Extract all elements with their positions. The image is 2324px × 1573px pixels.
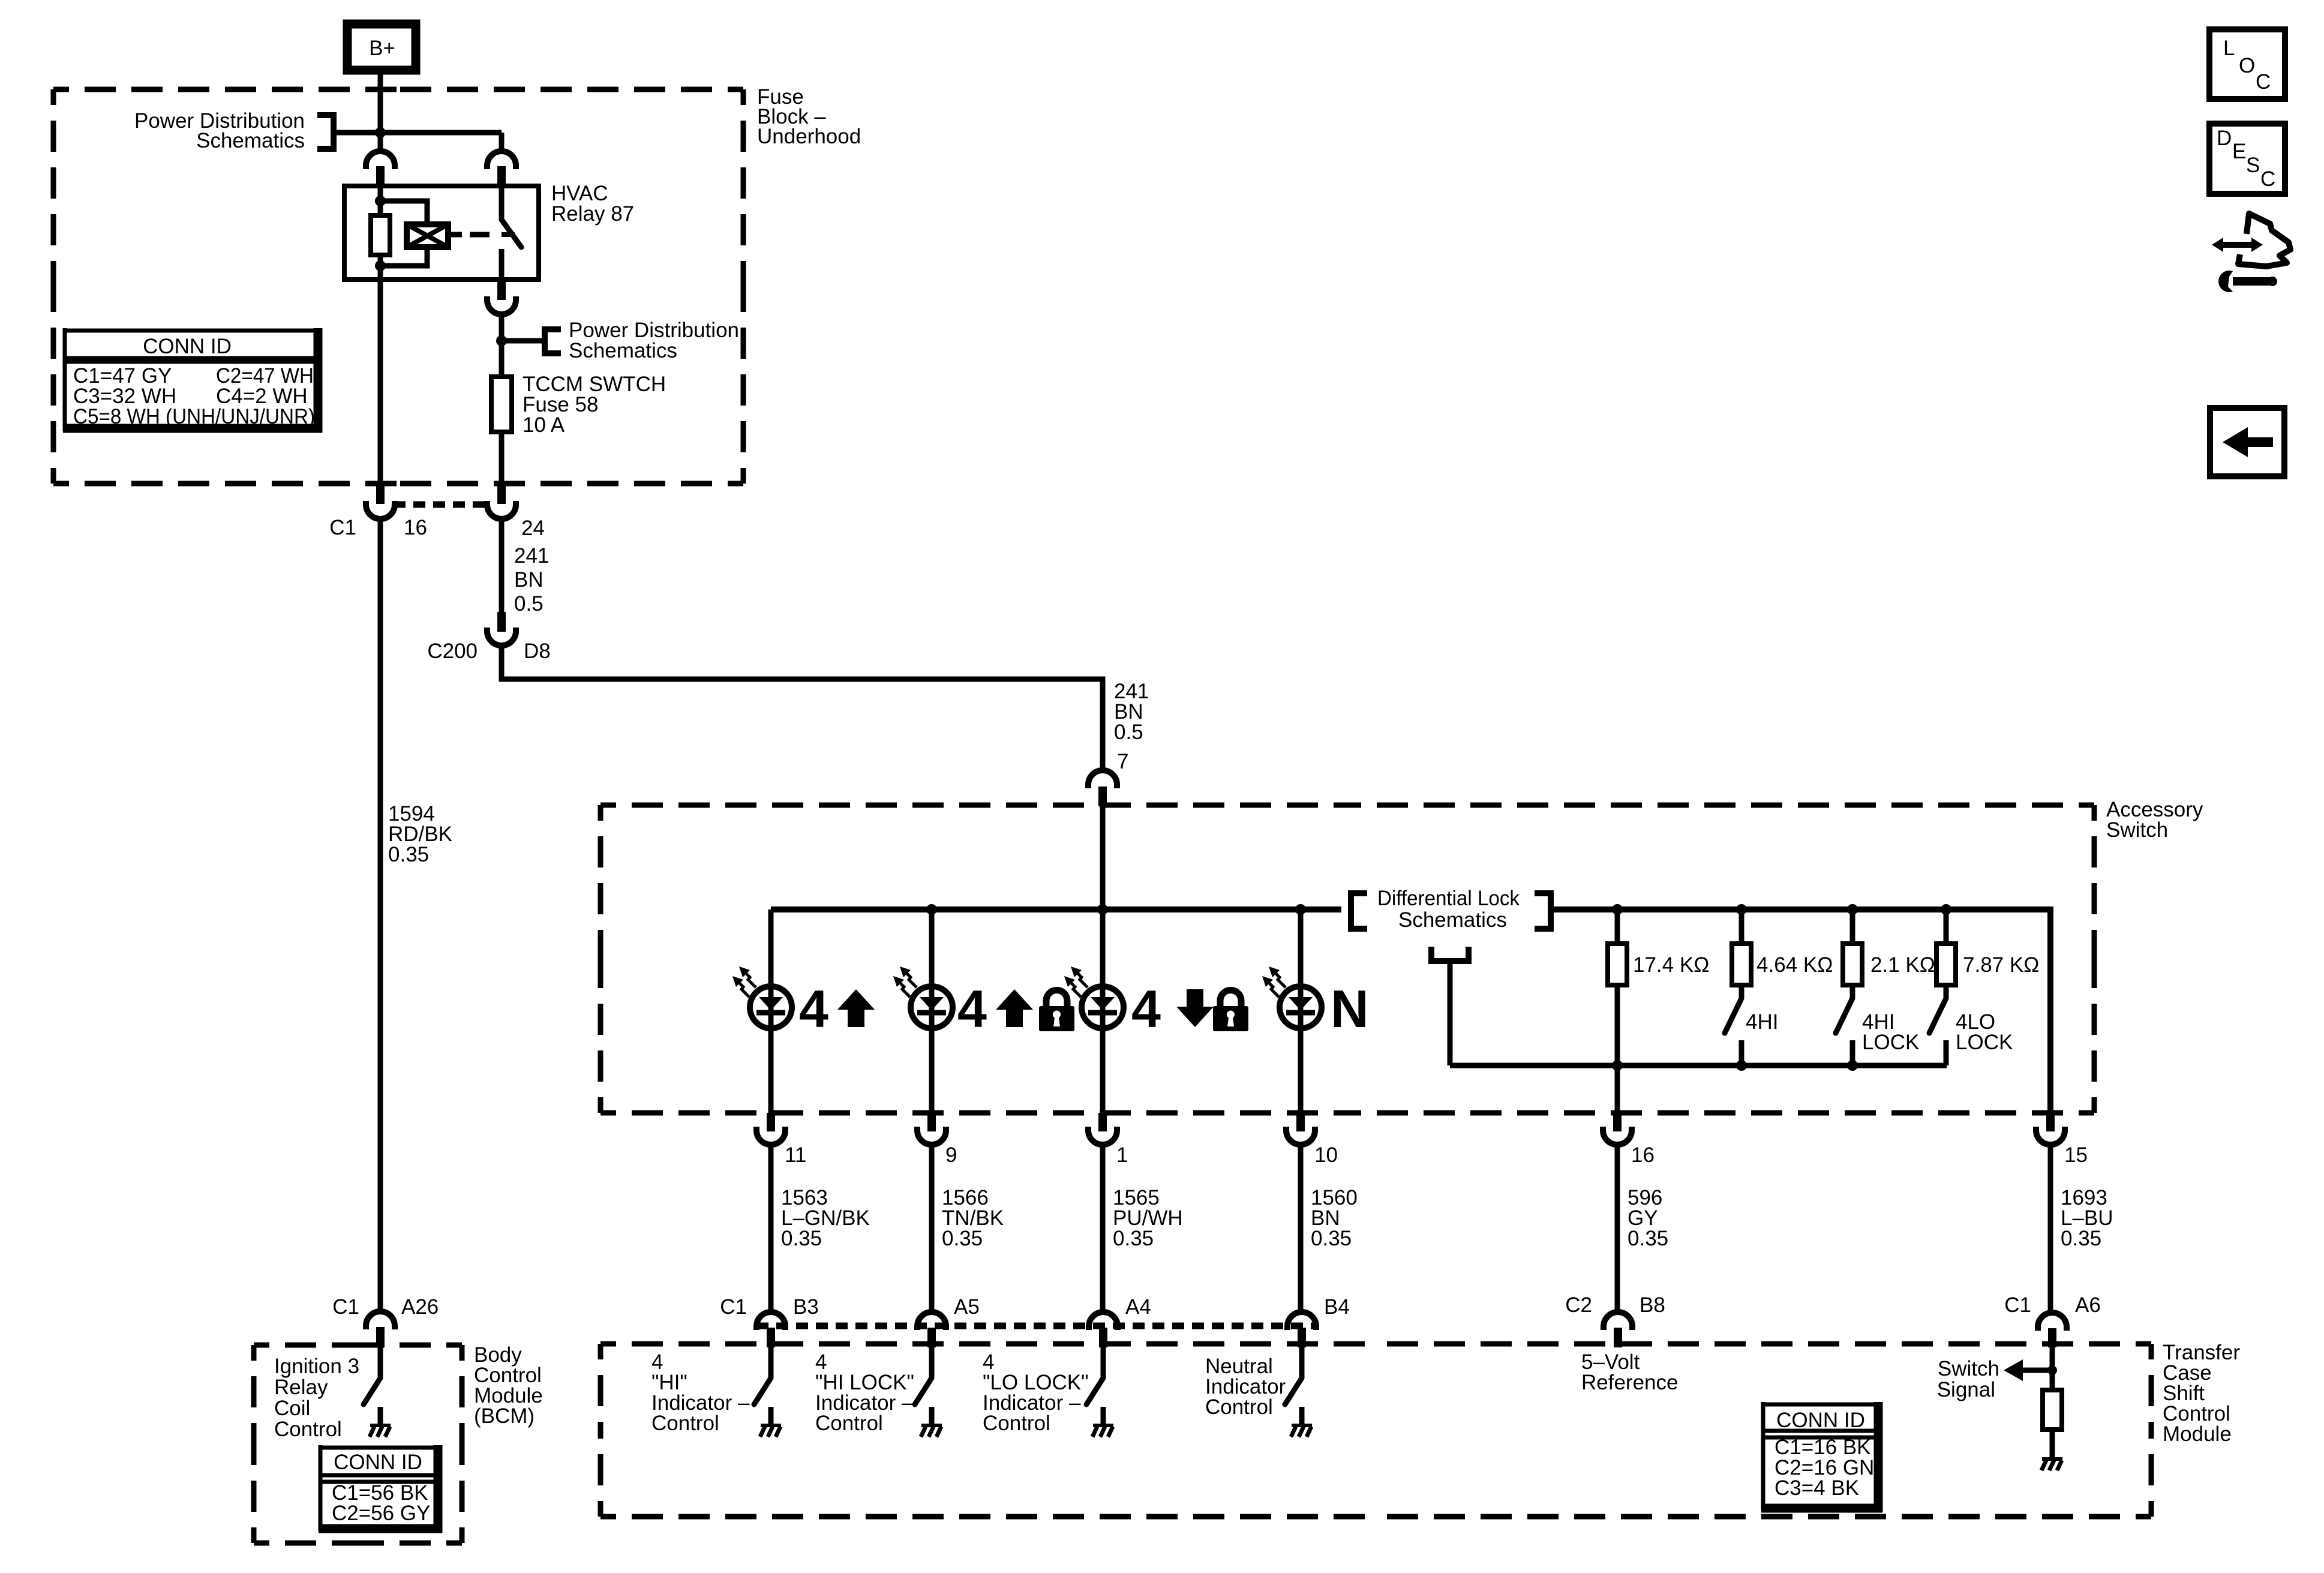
svg-text:C: C (2260, 167, 2275, 191)
svg-text:C1: C1 (332, 1295, 359, 1319)
svg-text:241: 241 (514, 544, 549, 568)
svg-text:4: 4 (1131, 979, 1161, 1038)
svg-text:24: 24 (521, 517, 545, 540)
svg-text:Signal: Signal (1937, 1378, 1995, 1401)
svg-text:LOCK: LOCK (1956, 1031, 2013, 1054)
svg-text:Ignition 3: Ignition 3 (274, 1355, 359, 1378)
svg-text:4.64 KΩ: 4.64 KΩ (1756, 953, 1833, 977)
svg-text:B8: B8 (1640, 1293, 1665, 1317)
svg-text:Control: Control (274, 1418, 342, 1441)
svg-text:0.5: 0.5 (514, 592, 544, 616)
svg-text:B4: B4 (1324, 1295, 1350, 1319)
svg-text:A4: A4 (1125, 1295, 1151, 1319)
svg-text:CONN ID: CONN ID (334, 1451, 422, 1474)
svg-text:O: O (2239, 54, 2255, 77)
svg-text:10 A: 10 A (523, 413, 565, 437)
svg-text:16: 16 (404, 516, 427, 539)
svg-text:S: S (2246, 154, 2260, 177)
svg-text:Switch: Switch (1938, 1357, 1999, 1380)
svg-text:15: 15 (2064, 1143, 2088, 1167)
svg-text:4HI: 4HI (1746, 1010, 1778, 1034)
svg-text:4: 4 (957, 979, 987, 1038)
svg-text:B3: B3 (793, 1295, 819, 1319)
svg-text:Control: Control (983, 1412, 1050, 1435)
svg-text:0.35: 0.35 (388, 843, 429, 866)
svg-text:C3=4 BK: C3=4 BK (1774, 1476, 1859, 1500)
svg-text:Control: Control (1205, 1395, 1273, 1419)
svg-text:D: D (2217, 127, 2232, 150)
svg-text:C: C (2256, 70, 2271, 94)
svg-text:C200: C200 (427, 640, 478, 663)
svg-text:Schematics: Schematics (196, 129, 305, 152)
svg-text:L: L (2223, 37, 2235, 60)
svg-text:LOCK: LOCK (1862, 1031, 1919, 1054)
svg-text:(BCM): (BCM) (474, 1404, 535, 1428)
svg-text:CONN ID: CONN ID (1776, 1409, 1865, 1432)
svg-text:0.35: 0.35 (781, 1227, 822, 1250)
svg-text:Underhood: Underhood (757, 125, 861, 148)
svg-text:Control: Control (815, 1412, 883, 1435)
svg-text:Relay 87: Relay 87 (551, 202, 634, 226)
svg-text:Reference: Reference (1581, 1371, 1678, 1394)
svg-text:C1: C1 (720, 1295, 747, 1319)
svg-text:C5=8 WH (UNH/UNJ/UNR): C5=8 WH (UNH/UNJ/UNR) (73, 405, 315, 428)
svg-text:7.87 KΩ: 7.87 KΩ (1963, 953, 2039, 977)
svg-text:A26: A26 (401, 1295, 439, 1319)
svg-text:Control: Control (651, 1412, 719, 1435)
svg-text:Schematics: Schematics (569, 339, 677, 362)
svg-text:17.4 KΩ: 17.4 KΩ (1633, 953, 1709, 977)
svg-text:Relay: Relay (274, 1376, 328, 1399)
svg-text:0.35: 0.35 (1113, 1227, 1154, 1250)
svg-text:Coil: Coil (274, 1397, 310, 1420)
svg-text:C2=56 GY: C2=56 GY (332, 1502, 430, 1525)
svg-text:A6: A6 (2075, 1293, 2101, 1317)
svg-text:2.1 KΩ: 2.1 KΩ (1870, 953, 1935, 977)
svg-text:A5: A5 (954, 1295, 980, 1319)
svg-text:D8: D8 (524, 640, 551, 663)
svg-text:0.35: 0.35 (2061, 1227, 2101, 1250)
svg-text:N: N (1331, 979, 1369, 1038)
svg-text:7: 7 (1117, 750, 1128, 773)
svg-text:Module: Module (2163, 1422, 2232, 1446)
svg-text:9: 9 (945, 1143, 957, 1167)
svg-text:E: E (2232, 140, 2246, 163)
svg-text:0.5: 0.5 (1114, 721, 1143, 744)
svg-text:1: 1 (1116, 1143, 1128, 1167)
svg-text:0.35: 0.35 (942, 1227, 983, 1250)
svg-text:C1: C1 (329, 516, 356, 539)
svg-text:0.35: 0.35 (1311, 1227, 1352, 1250)
svg-text:BN: BN (514, 568, 544, 592)
svg-text:B+: B+ (369, 37, 395, 60)
svg-text:4: 4 (799, 979, 828, 1038)
svg-text:C2: C2 (1565, 1293, 1592, 1317)
svg-text:0.35: 0.35 (1628, 1227, 1668, 1250)
svg-text:Switch: Switch (2106, 818, 2168, 842)
svg-text:Schematics: Schematics (1398, 908, 1507, 932)
svg-text:Differential Lock: Differential Lock (1377, 887, 1520, 910)
svg-text:CONN ID: CONN ID (143, 335, 232, 358)
svg-text:10: 10 (1314, 1143, 1338, 1167)
svg-text:16: 16 (1631, 1143, 1655, 1167)
svg-text:C1: C1 (2004, 1293, 2031, 1317)
svg-text:11: 11 (785, 1143, 806, 1167)
